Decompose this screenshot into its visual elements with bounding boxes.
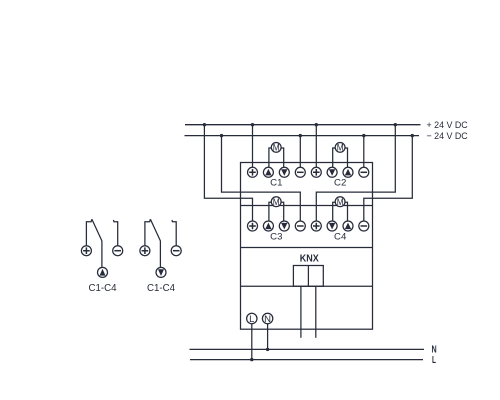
terminal C3 minus	[295, 221, 305, 231]
junction +24V / C2 plus	[315, 123, 318, 126]
svg-text:M: M	[273, 143, 280, 153]
terminal C3 down	[279, 221, 289, 231]
junction +24V / C4 feed	[394, 123, 397, 126]
wire +24V to C4 plus right route	[316, 125, 395, 221]
switch S2 terminal plus	[140, 246, 150, 256]
terminal C4 plus	[311, 221, 321, 231]
motor M1 (C1)	[269, 143, 284, 168]
svg-text:+ 24 V DC: + 24 V DC	[427, 119, 468, 130]
switch S1 blade	[92, 219, 102, 267]
wire KNX bus minus down	[315, 286, 317, 338]
divider terminal row / body	[241, 205, 373, 207]
junction +24V / C3 feed	[203, 123, 206, 126]
wire -24V to C3 minus left route	[222, 136, 301, 221]
KNX bus connector	[293, 266, 323, 287]
switch S2 down output terminal	[156, 267, 166, 277]
terminal C3 plus	[248, 221, 258, 231]
svg-text:M: M	[337, 143, 344, 153]
wire +24V to C1 plus	[252, 125, 254, 168]
junction L on mains L	[250, 358, 253, 361]
switch S1 up output terminal	[98, 267, 108, 277]
motor M2 (C2)	[333, 143, 348, 168]
wire +24V to C3 plus left route	[204, 125, 252, 221]
wire -24V to C1 minus	[299, 136, 301, 168]
junction +24V / C1 plus	[251, 123, 254, 126]
device outline	[241, 163, 373, 330]
svg-text:C3: C3	[270, 232, 282, 243]
terminal N	[262, 313, 272, 325]
svg-text:C1-C4: C1-C4	[89, 283, 117, 294]
svg-text:N: N	[264, 314, 271, 325]
terminal C1 up	[263, 167, 273, 177]
svg-text:N: N	[432, 344, 437, 355]
switch S2 plus hook wire	[145, 219, 151, 246]
svg-text:M: M	[337, 197, 344, 207]
svg-text:C1: C1	[270, 177, 282, 188]
terminal C4 down	[327, 221, 337, 231]
switch S2 blade	[150, 219, 160, 267]
-24V supply line	[185, 135, 420, 137]
svg-text:L: L	[432, 355, 436, 366]
terminal C2 plus	[311, 167, 321, 177]
switch S1 terminal minus	[113, 246, 123, 256]
terminal C4 up	[343, 221, 353, 231]
+24V supply line	[185, 124, 421, 126]
junction N on mains N	[266, 348, 269, 351]
terminal L	[247, 313, 257, 325]
junction -24V / C3 feed	[220, 134, 223, 137]
mains N line	[190, 348, 425, 350]
wire +24V to C2 plus	[315, 125, 317, 168]
divider KNX / mains section	[241, 285, 373, 287]
motor M3 (C3)	[269, 197, 284, 221]
junction -24V / C4 feed	[411, 134, 414, 137]
mains L line	[190, 359, 423, 361]
switch S1 minus hook wire	[113, 220, 117, 246]
switch S1 plus hook wire	[86, 219, 92, 246]
svg-text:L: L	[249, 314, 254, 325]
svg-text:C2: C2	[334, 177, 346, 188]
terminal C2 down	[327, 167, 337, 177]
junction -24V / C2 minus	[362, 134, 365, 137]
terminal C2 minus	[359, 167, 369, 177]
terminal C2 up	[343, 167, 353, 177]
junction -24V / C1 minus	[299, 134, 302, 137]
svg-text:− 24 V DC: − 24 V DC	[427, 130, 468, 141]
switch S2 minus hook wire	[172, 220, 176, 246]
svg-text:M: M	[273, 197, 280, 207]
switch S1 terminal plus	[81, 246, 91, 256]
wire -24V to C4 minus right route	[364, 136, 413, 221]
wire N to mains N line	[267, 324, 269, 350]
switch S2 terminal minus	[171, 246, 181, 256]
svg-text:KNX: KNX	[300, 253, 319, 264]
terminal C3 up	[263, 221, 273, 231]
terminal C1 plus	[248, 167, 258, 177]
svg-text:C1-C4: C1-C4	[147, 283, 175, 294]
motor M4 (C4)	[333, 197, 348, 221]
divider body / KNX section	[241, 247, 373, 249]
wire KNX bus plus down	[300, 286, 302, 338]
terminal C1 down	[279, 167, 289, 177]
svg-text:C4: C4	[334, 232, 346, 243]
wire L to mains L line	[251, 324, 253, 360]
wire -24V to C2 minus	[363, 136, 365, 168]
terminal C1 minus	[295, 167, 305, 177]
terminal C4 minus	[359, 221, 369, 231]
